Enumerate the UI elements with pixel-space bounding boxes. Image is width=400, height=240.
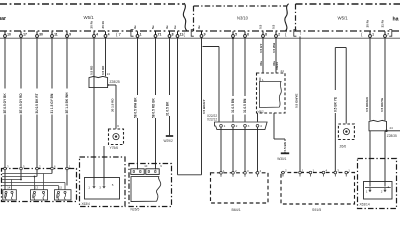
pin B64/1 2 — [232, 169, 237, 177]
wire branch vertical to X22 pin1 — [218, 47, 220, 122]
pin 8 at x=169.5 — [168, 31, 174, 37]
svg-text:W3a: W3a — [4, 193, 7, 199]
wire X22 pin down at 245 — [244, 127, 246, 171]
wire jumper right leg — [201, 37, 203, 174]
pin N26 strip at 133.8 — [133, 170, 135, 172]
wire internal horizontal y=173.5 — [2, 173, 52, 175]
pin 9 at x=67 — [66, 31, 72, 37]
svg-text:1: 1 — [224, 124, 226, 128]
svg-text:3u: 3u — [133, 25, 137, 29]
wire x=300 to S91 — [299, 37, 301, 172]
svg-text:0.5 GY: 0.5 GY — [259, 44, 263, 53]
pin S91/5 1 — [309, 169, 314, 177]
capacitor-style splice Z28/35 box — [369, 120, 386, 130]
wire - shield line — [0, 37, 400, 39]
wire from pin at x=67 upper — [66, 38, 68, 89]
wire N26 inner shape — [131, 177, 161, 202]
wire jumper left leg — [177, 37, 179, 174]
wire X22 pin down at 257.5 — [257, 127, 259, 171]
node Z6/6 element circle — [343, 129, 349, 135]
pin 17 at x=21 — [20, 31, 27, 37]
wire jumper bottom — [178, 174, 202, 176]
svg-text:0.5 BK YE: 0.5 BK YE — [334, 97, 338, 112]
pin S91/5 1 — [345, 169, 350, 177]
connector group at x=30.5 — [31, 190, 48, 200]
wire internal horizontal y=182.5 — [2, 182, 65, 184]
wire from pin x=105.5 — [105, 38, 107, 77]
wire from pin x=385 — [384, 38, 386, 121]
wire internal drop x=43.5 — [43, 174, 45, 190]
connector group at x=54.5 — [55, 190, 72, 200]
wire V8 exit to X22 pin4 — [257, 113, 259, 122]
pin N26 strip at 140.3 — [139, 170, 141, 172]
component box N26/5 outline — [129, 164, 172, 207]
node junction dot on shield at 233 — [232, 37, 234, 39]
pin harness box 3 — [4, 165, 9, 172]
wire from pin at x=52 lower — [51, 115, 53, 174]
wire internal horizontal y=185.5 — [2, 185, 58, 187]
svg-text:8: 8 — [172, 32, 174, 36]
wire internal horizontal y=176.5 — [2, 176, 37, 178]
svg-text:7: 7 — [387, 32, 389, 36]
wire from pin at x=21 lower — [20, 115, 22, 180]
wire - right border vertical — [295, 4, 297, 31]
pin group 58.5 — [57, 191, 59, 199]
wire 385 below splice — [384, 131, 386, 187]
wire from pin at x=5 upper — [4, 38, 6, 89]
svg-text:X63/4: X63/4 — [82, 202, 91, 206]
svg-text:3E 0.5 GY BK: 3E 0.5 GY BK — [3, 93, 7, 114]
pin harness box 2 — [36, 165, 41, 172]
component box X63/4 outline — [80, 157, 126, 207]
wire from pin x=169.5 lower — [169, 116, 171, 135]
svg-text:0.5: 0.5 — [272, 24, 276, 29]
svg-text:3: 3 — [248, 124, 250, 128]
wire - break squiggle left — [183, 3, 187, 31]
pin 1 at x=370 — [369, 31, 375, 37]
wire from pin x=233 upper — [232, 38, 234, 97]
pin X22 3 — [244, 124, 250, 128]
wire from pin x=233 lower — [232, 115, 234, 122]
svg-text:W3a: W3a — [32, 193, 35, 199]
wire to ground upper — [284, 139, 286, 141]
svg-text:10: 10 — [144, 164, 148, 168]
wire X63/14 inner strip — [365, 187, 391, 189]
wire from pin x=245 lower — [244, 115, 246, 122]
svg-text:4: 4 — [108, 32, 110, 36]
pin 10 at x=5 — [4, 31, 11, 37]
wire from pin x=155.5 upper — [155, 38, 157, 96]
wire - break squiggle right — [285, 4, 289, 31]
svg-text:0.5 RD/YE: 0.5 RD/YE — [380, 98, 384, 112]
wire from pin x=155.5 lower — [155, 118, 157, 170]
pin 6 at x=245 — [244, 31, 250, 37]
wire staple left lower — [334, 113, 336, 171]
wire V8 exit right leg — [273, 113, 275, 139]
svg-text:11: 11 — [54, 32, 58, 36]
diode-style component Z6/6 dashed box — [338, 124, 354, 140]
svg-text:1u: 1u — [173, 25, 177, 29]
component box X63/14 outline — [358, 159, 397, 209]
wire - top harness dash-dot border left segment — [0, 3, 184, 5]
svg-text:W29/2: W29/2 — [164, 139, 173, 143]
wire staple top — [335, 47, 346, 49]
svg-text:S91/5: S91/5 — [312, 208, 321, 212]
svg-text:5u: 5u — [151, 25, 155, 29]
svg-text:3U 0.5 BK RT: 3U 0.5 BK RT — [35, 93, 39, 113]
svg-text:W30/1: W30/1 — [277, 157, 286, 161]
pin 9 at x=201.5 — [200, 31, 206, 37]
wire from Z28/35 to right edge — [387, 130, 400, 132]
pin V8 inner 1 — [260, 78, 264, 83]
svg-text:0.5 BN: 0.5 BN — [283, 142, 287, 151]
pin X63/4 1 — [88, 184, 95, 190]
connector strip N26 left — [131, 169, 144, 175]
svg-text:0.5 GN/YE: 0.5 GN/YE — [295, 94, 299, 108]
svg-text:1: 1 — [140, 32, 142, 36]
svg-text:30: 30 — [39, 32, 43, 36]
resistor-style component Y75/6 dashed box — [109, 129, 124, 145]
svg-text:W5/1: W5/1 — [338, 15, 349, 20]
wire from pin x=263 — [262, 38, 264, 73]
wire staple left upper — [334, 48, 336, 91]
svg-text:24: 24 — [390, 126, 394, 130]
node - splice output junction — [107, 84, 109, 86]
svg-text:( 7: ( 7 — [116, 32, 122, 37]
wire X22 pin down at 233 — [232, 127, 234, 171]
node junction dot left box a — [34, 176, 36, 178]
wire from pin x=137.5 lower — [137, 118, 139, 170]
svg-text:8: 8 — [265, 32, 267, 36]
node junction dot left box b — [20, 179, 22, 181]
svg-text:Y75/6: Y75/6 — [110, 146, 119, 150]
wire X22 pin down at 221 — [220, 127, 222, 171]
wire from pin at x=52 upper — [51, 38, 53, 89]
node - component bus dash-dot line — [0, 30, 400, 32]
pin 4 at x=105.5 — [104, 31, 110, 37]
svg-text:10: 10 — [7, 32, 11, 36]
node splice Z28/35 junction — [385, 130, 388, 133]
connector X22/22 housing — [215, 122, 268, 130]
connector strip N26 right — [146, 169, 159, 175]
svg-text:W3a: W3a — [56, 193, 59, 199]
label bracket ] at 391 — [389, 30, 392, 37]
pin S91/5 3 — [334, 169, 339, 177]
svg-text:W5/1: W5/1 — [84, 15, 95, 20]
svg-text:4: 4 — [260, 124, 262, 128]
svg-text:5: 5 — [235, 32, 237, 36]
svg-text:17: 17 — [23, 32, 27, 36]
pin X63/4 3 — [99, 184, 105, 190]
pin 8 at x=263 — [262, 31, 268, 37]
svg-text:24: 24 — [107, 72, 111, 76]
pin 7 at x=385 — [384, 31, 390, 37]
wire internal drop x=65 — [64, 183, 66, 190]
svg-text:0.5 RD: 0.5 RD — [89, 65, 93, 75]
svg-text:31 0.5 BK: 31 0.5 BK — [166, 101, 170, 116]
wire - control unit N3 left edge — [193, 6, 195, 31]
svg-text:X63/14: X63/14 — [360, 203, 370, 207]
svg-text:30 Rt: 30 Rt — [101, 21, 105, 28]
wire from pin at x=37 upper — [36, 38, 38, 89]
wire - top harness dash-dot border right segment — [296, 3, 400, 5]
pin X22 1 — [220, 124, 226, 128]
component box S91/5 outline — [281, 173, 355, 205]
wire splice output horizontal — [108, 84, 116, 86]
svg-text:3u: 3u — [165, 25, 169, 29]
svg-text:30 1.5 RD: 30 1.5 RD — [111, 98, 115, 112]
pin 1 at x=137.5 — [136, 31, 142, 37]
connector X63/14 inner box — [364, 182, 393, 200]
svg-text:30u: 30u — [259, 61, 263, 66]
svg-text:Z28/35: Z28/35 — [387, 134, 397, 138]
wire to ground lower — [284, 151, 286, 154]
pin 30 at x=37 — [36, 31, 43, 37]
wire internal drop x=34.5 — [34, 177, 36, 190]
svg-text:24: 24 — [281, 69, 285, 73]
wire from pin x=370 — [369, 38, 371, 121]
op-amp - control unit N3 box top edge — [194, 5, 287, 7]
pin B64/1 1 — [220, 169, 225, 177]
pin 11 at x=177.5 — [176, 31, 183, 37]
wire from pin at x=37 lower — [36, 115, 38, 177]
svg-text:3u: 3u — [197, 25, 201, 29]
wire internal horizontal y=179.5 — [2, 179, 21, 181]
svg-text:0.5 WH: 0.5 WH — [272, 43, 276, 53]
svg-text:0.5 RD/GN: 0.5 RD/GN — [365, 97, 369, 112]
svg-text:0.5: 0.5 — [259, 24, 263, 29]
pin group 6 — [5, 191, 7, 199]
pin group 65 — [64, 191, 66, 199]
svg-text:30 Rt: 30 Rt — [366, 20, 370, 27]
svg-text:2: 2 — [278, 32, 280, 36]
svg-text:N26/5: N26/5 — [131, 207, 140, 211]
pin 2 at x=276 — [275, 31, 281, 37]
pin X63/14 1 — [366, 188, 371, 194]
svg-text:0.5 BK/GY: 0.5 BK/GY — [202, 99, 206, 114]
svg-text:V8/2: V8/2 — [258, 109, 265, 113]
pin group 34.5 — [33, 191, 35, 199]
pin B64/1 3 — [244, 169, 249, 177]
svg-text:31 Rt: 31 Rt — [381, 20, 385, 27]
pin X22 2 — [232, 124, 238, 128]
connector group at x=2.8 — [3, 190, 16, 200]
label bracket [ at 191 — [191, 30, 194, 37]
svg-text:N3/10: N3/10 — [237, 16, 249, 21]
label bracket [ at 294 — [294, 30, 297, 37]
ground W30/1 bar — [281, 152, 289, 154]
svg-text:7: 7 — [300, 32, 302, 36]
svg-text:31 0.5 BN: 31 0.5 BN — [243, 98, 247, 113]
svg-text:71: 71 — [158, 32, 162, 36]
label bracket [ at 131 — [131, 30, 134, 37]
pin S91/5 4 — [322, 169, 327, 177]
wire 370 below splice — [369, 131, 371, 187]
svg-text:6: 6 — [247, 32, 249, 36]
transistor-style connector V8 dashed box — [257, 73, 286, 113]
svg-text:31 1.5 GY BN: 31 1.5 GY BN — [50, 93, 54, 113]
wire internal drop x=11.5 — [11, 180, 13, 190]
pin harness box 5 — [20, 165, 25, 172]
svg-text:1: 1 — [372, 32, 374, 36]
svg-text:ha: ha — [393, 17, 399, 23]
svg-text:3E 1.0 BK WH: 3E 1.0 BK WH — [65, 92, 69, 114]
connector X63/4 inner box — [85, 178, 120, 200]
svg-text:Z28/25: Z28/25 — [110, 80, 120, 84]
pin harness box 6 — [51, 165, 56, 172]
svg-text:9: 9 — [69, 32, 71, 36]
pin 11 at x=52 — [51, 31, 58, 37]
svg-text:4: 4 — [96, 32, 98, 36]
pin group 43.5 — [42, 191, 44, 199]
pin X63/14 2 — [381, 188, 386, 194]
svg-text:B64/1: B64/1 — [232, 208, 241, 212]
capacitor-style splice Z28/25 box — [89, 76, 108, 87]
svg-text:9: 9 — [204, 32, 206, 36]
svg-text:3E 0.5 GY RD: 3E 0.5 GY RD — [19, 93, 23, 114]
wire branch jog horizontal — [203, 46, 220, 48]
pin 4 at x=94 — [93, 31, 99, 37]
wire to ground horizontal — [274, 138, 285, 140]
wire from pin x=169.5 upper — [169, 38, 171, 96]
wire from pin x=137.5 upper — [137, 38, 139, 96]
wire into X63/4 second pin — [103, 146, 105, 185]
svg-text:0.5 RD: 0.5 RD — [101, 65, 105, 75]
pin 5 at x=233 — [232, 31, 238, 37]
pin group 12 — [11, 191, 13, 199]
wire internal drop x=58.5 — [58, 186, 60, 190]
pin S91/5 2 — [282, 169, 287, 177]
wire from pin x=94 — [93, 38, 95, 185]
pin X22 4 — [256, 124, 262, 128]
component box B64/1 outline — [211, 173, 269, 203]
pin N26 strip at 148.8 — [148, 170, 150, 172]
svg-text:31 0.5 BN: 31 0.5 BN — [231, 98, 235, 113]
svg-text:V8/24: V8/24 — [275, 62, 279, 70]
wire from pin at x=67 lower — [66, 115, 68, 186]
component harness box left outline — [2, 169, 77, 202]
node Y75/6 element circle — [113, 134, 119, 140]
svg-text:30 Rt: 30 Rt — [90, 21, 94, 28]
wire from pin x=276 — [275, 38, 277, 73]
svg-text:X22/12: X22/12 — [207, 117, 217, 121]
svg-text:58 0.5 RD BK: 58 0.5 RD BK — [152, 97, 156, 118]
wire staple right leg — [345, 48, 347, 124]
wire from pin at x=5 lower — [4, 115, 6, 190]
pin 71 at x=155.5 — [154, 31, 161, 37]
wire from pin x=245 upper — [244, 38, 246, 97]
pin N26 strip at 155.3 — [154, 170, 156, 172]
svg-text:2: 2 — [236, 124, 238, 128]
svg-text:Z6/6: Z6/6 — [340, 145, 347, 149]
svg-text:har: har — [0, 16, 6, 22]
pin S91/5 1 — [299, 169, 304, 177]
pin B64/1 4 — [256, 169, 261, 177]
pin harness box 1 — [66, 165, 71, 172]
wire splice output vertical — [115, 85, 117, 129]
svg-text:58 0.5 WH BK: 58 0.5 WH BK — [134, 97, 138, 118]
ground W29/2 bar — [166, 135, 173, 137]
wire from pin at x=21 upper — [20, 38, 22, 89]
wire V8 inner shape — [260, 82, 282, 108]
